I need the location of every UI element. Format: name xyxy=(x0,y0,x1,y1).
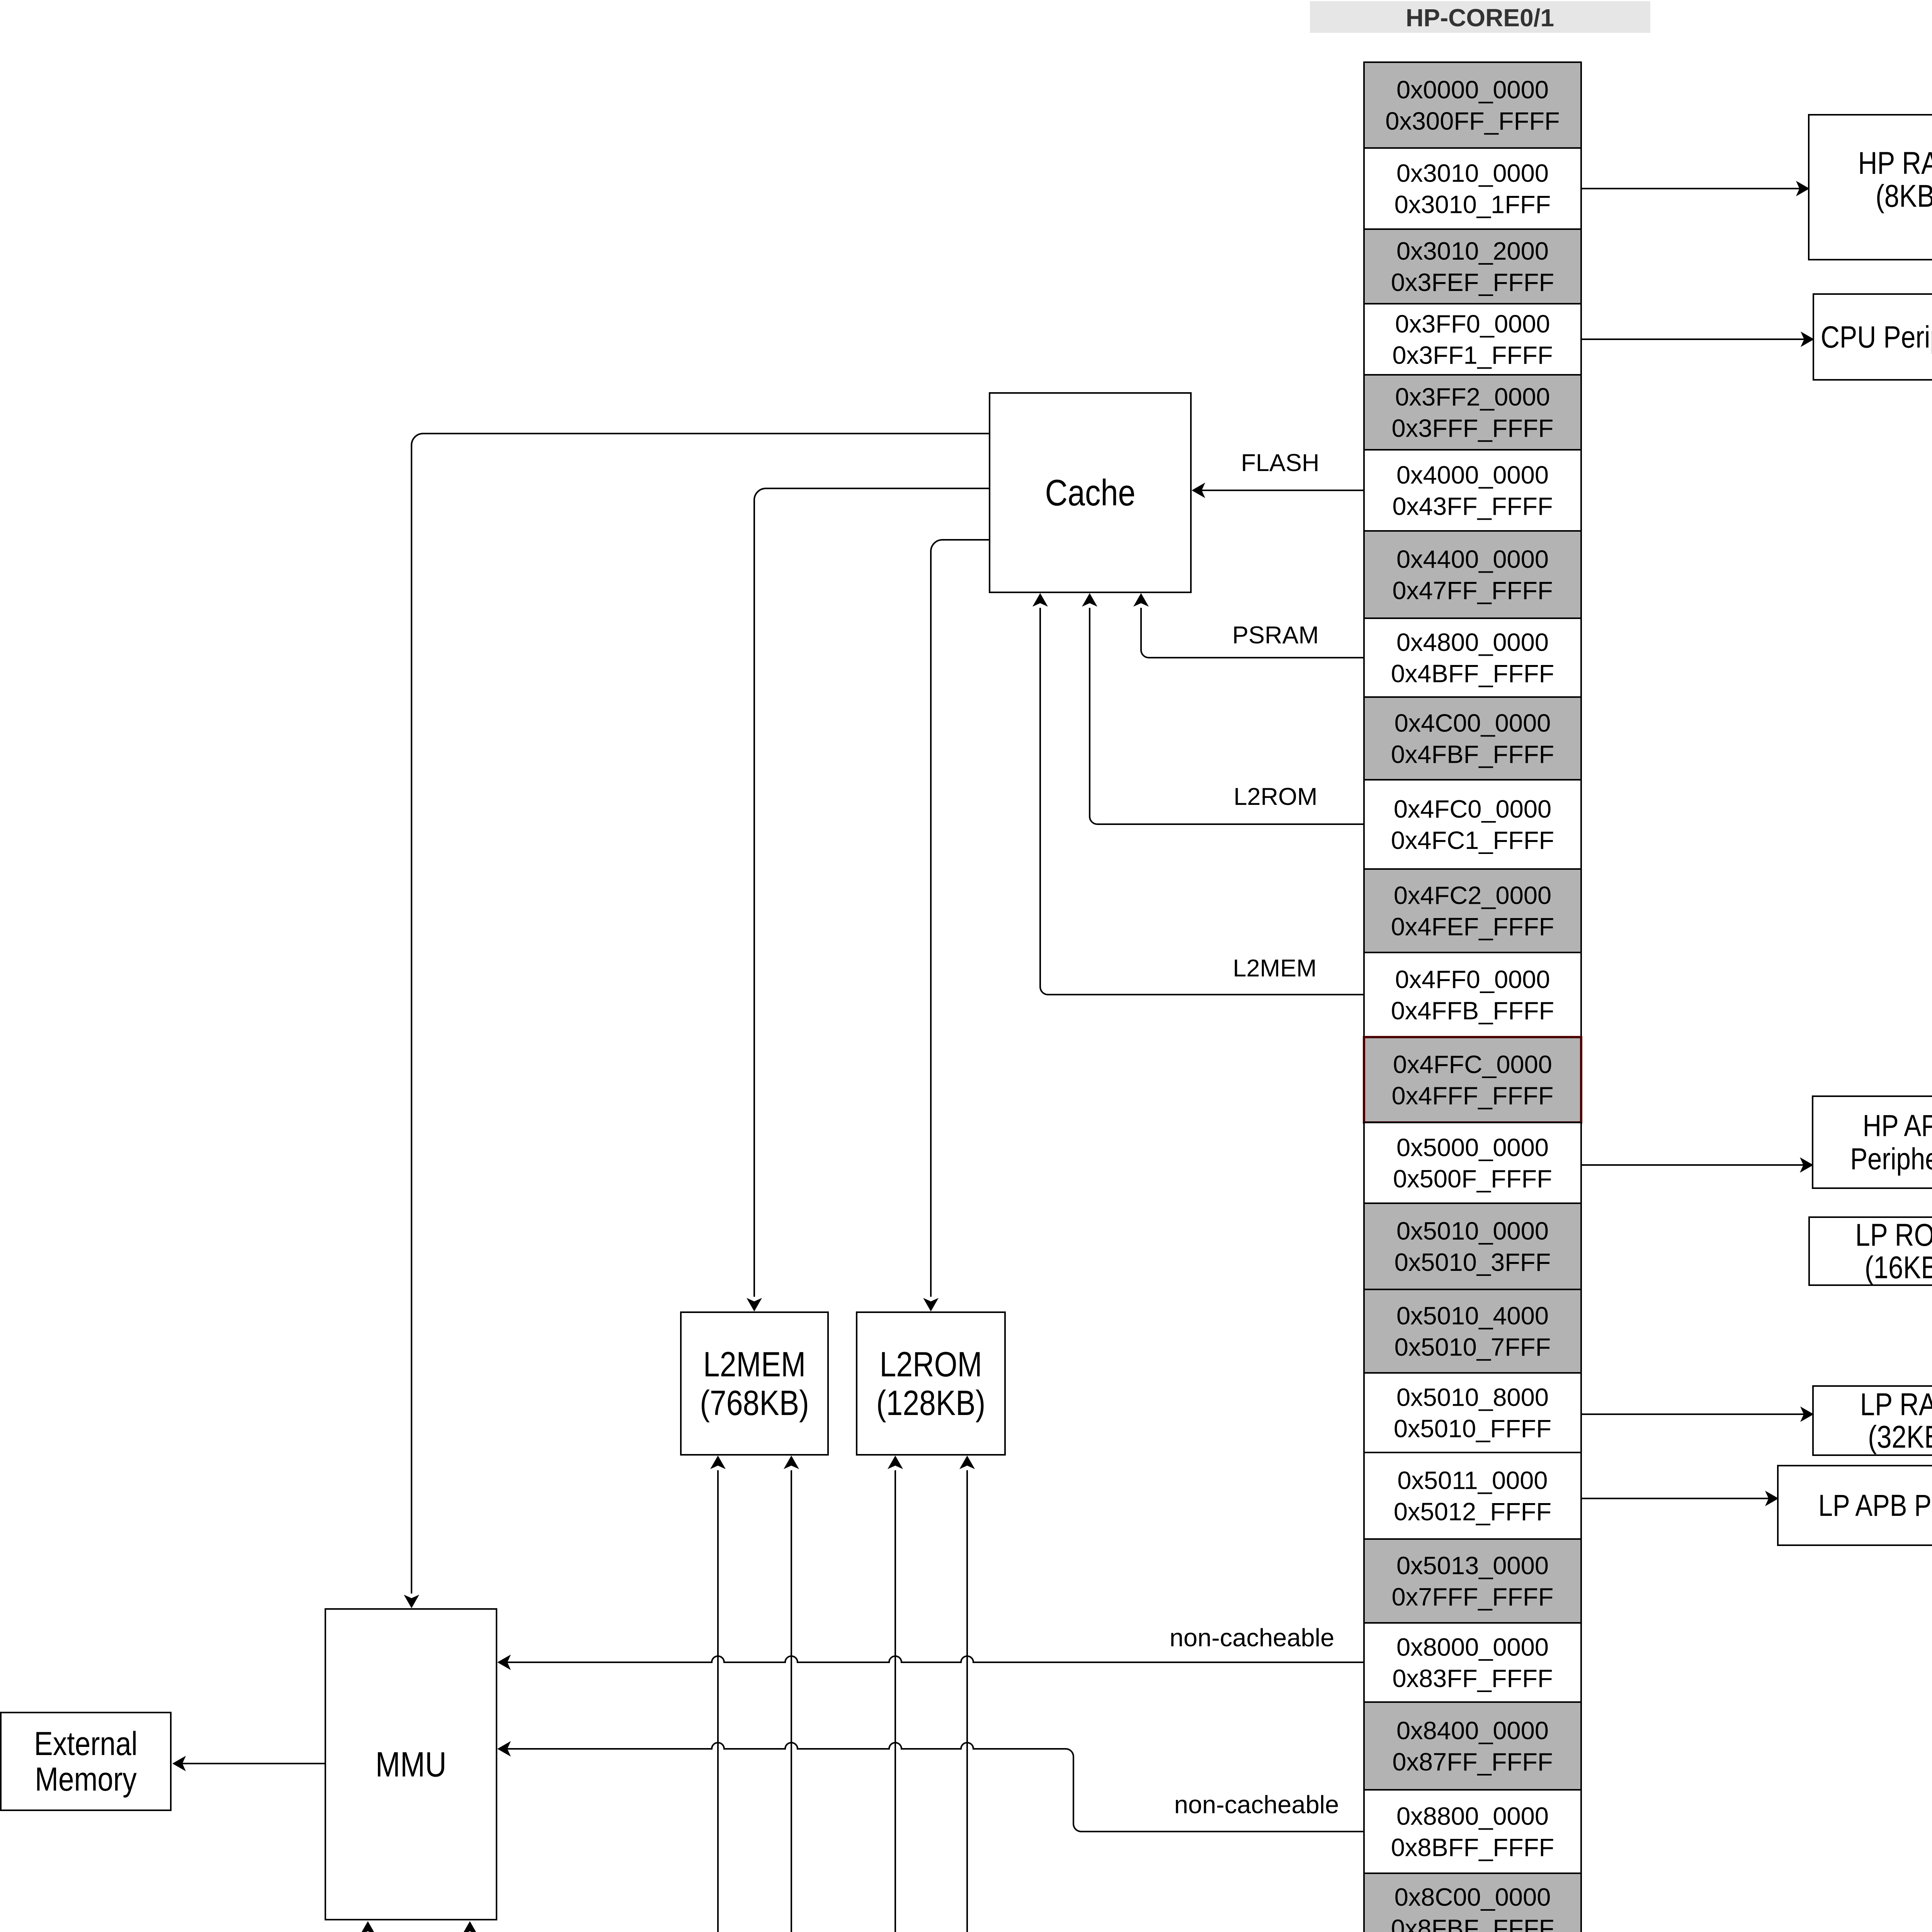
svg-text:FLASH: FLASH xyxy=(1241,449,1319,476)
wire non-cacheable 0x8000_0000 row to MMU xyxy=(500,1656,1363,1662)
box LP ROM (16KB) xyxy=(1809,1217,1932,1285)
svg-text:HP-CORE0/1: HP-CORE0/1 xyxy=(1406,4,1554,32)
wire ULP 0x4800_0000 row to MMU bottom xyxy=(368,658,1932,1932)
svg-text:0x3FF0_0000: 0x3FF0_0000 xyxy=(1395,310,1550,338)
svg-text:0x3010_0000: 0x3010_0000 xyxy=(1396,159,1549,187)
svg-text:0x5000_0000: 0x5000_0000 xyxy=(1396,1133,1549,1162)
svg-text:PSRAM: PSRAM xyxy=(1232,622,1319,649)
svg-text:(768KB): (768KB) xyxy=(700,1383,809,1422)
HP-CORE memory column row 0x5013_0000 xyxy=(1364,1539,1581,1623)
wire ULP 0x4FF0_0000 row to L2MEM bottom xyxy=(718,995,1932,1932)
svg-text:Memory: Memory xyxy=(35,1760,137,1798)
svg-text:HP APB: HP APB xyxy=(1863,1109,1932,1143)
svg-text:0x8000_0000: 0x8000_0000 xyxy=(1396,1633,1549,1661)
HP-CORE memory column row 0x4400_0000 xyxy=(1364,531,1581,618)
svg-text:0x4C00_0000: 0x4C00_0000 xyxy=(1395,709,1551,737)
svg-text:(32KB): (32KB) xyxy=(1868,1419,1932,1454)
box External Memory xyxy=(1,1713,171,1810)
svg-text:0x87FF_FFFF: 0x87FF_FFFF xyxy=(1392,1748,1553,1776)
svg-text:0x5010_7FFF: 0x5010_7FFF xyxy=(1395,1333,1551,1361)
svg-text:0x4FEF_FFFF: 0x4FEF_FFFF xyxy=(1391,913,1554,941)
svg-text:0x5010_0000: 0x5010_0000 xyxy=(1396,1217,1549,1245)
HP-CORE memory column row 0x3010_0000 xyxy=(1364,148,1581,229)
box CPU Peripheral xyxy=(1813,294,1932,380)
HP-CORE memory column row 0x3FF0_0000 xyxy=(1364,304,1581,375)
svg-text:MMU: MMU xyxy=(376,1745,447,1784)
svg-text:0x4FBF_FFFF: 0x4FBF_FFFF xyxy=(1391,740,1554,769)
wire Cache to MMU top xyxy=(412,434,990,1594)
wire HP-CORE 0x3010_0000 row to HP RAM xyxy=(1582,188,1806,189)
svg-text:L2MEM: L2MEM xyxy=(703,1345,806,1384)
svg-text:(128KB): (128KB) xyxy=(876,1383,985,1422)
svg-text:0x43FF_FFFF: 0x43FF_FFFF xyxy=(1392,492,1553,520)
svg-text:0x4FC0_0000: 0x4FC0_0000 xyxy=(1394,795,1551,823)
svg-text:0x5013_0000: 0x5013_0000 xyxy=(1396,1551,1549,1580)
svg-text:0x3FFF_FFFF: 0x3FFF_FFFF xyxy=(1392,414,1554,442)
HP-CORE memory column row 0x8C00_0000 xyxy=(1364,1873,1581,1932)
HP-CORE memory column row 0x4000_0000 xyxy=(1364,450,1581,531)
svg-text:0x83FF_FFFF: 0x83FF_FFFF xyxy=(1392,1664,1553,1692)
HP-CORE memory column row 0x8800_0000 xyxy=(1364,1790,1581,1873)
svg-text:0x7FFF_FFFF: 0x7FFF_FFFF xyxy=(1392,1583,1554,1611)
svg-text:(8KB): (8KB) xyxy=(1876,179,1932,214)
wire HP-CORE 0x5011_0000 row to LP APB Peripheral xyxy=(1582,1498,1775,1499)
svg-text:Peripheral: Peripheral xyxy=(1850,1142,1932,1176)
svg-text:0x300FF_FFFF: 0x300FF_FFFF xyxy=(1385,107,1560,135)
svg-text:0x5012_FFFF: 0x5012_FFFF xyxy=(1394,1498,1551,1526)
box L2ROM (128KB) xyxy=(857,1312,1005,1455)
wire L2MEM row to Cache bottom xyxy=(1040,608,1363,995)
svg-text:0x8800_0000: 0x8800_0000 xyxy=(1396,1802,1549,1830)
svg-text:non-cacheable: non-cacheable xyxy=(1170,1624,1334,1652)
svg-text:0x3FF1_FFFF: 0x3FF1_FFFF xyxy=(1392,341,1553,369)
svg-text:0x8FBF_FFFF: 0x8FBF_FFFF xyxy=(1391,1914,1554,1932)
svg-text:0x4BFF_FFFF: 0x4BFF_FFFF xyxy=(1391,660,1554,688)
HP-CORE memory column row 0x4800_0000 xyxy=(1364,618,1581,697)
svg-text:0x4FC2_0000: 0x4FC2_0000 xyxy=(1394,881,1551,910)
HP-CORE memory column row 0x8400_0000 xyxy=(1364,1702,1581,1790)
wire non-cacheable 0x8800_0000 row to MMU xyxy=(500,1743,1363,1832)
svg-text:0x4FF0_0000: 0x4FF0_0000 xyxy=(1395,965,1550,993)
HP-CORE memory column row 0x0000_0000 xyxy=(1364,62,1581,148)
svg-text:Cache: Cache xyxy=(1045,472,1135,514)
HP-CORE memory column row 0x4FC0_0000 xyxy=(1364,780,1581,869)
wire Cache to L2MEM top xyxy=(754,488,990,1297)
svg-text:0x3010_1FFF: 0x3010_1FFF xyxy=(1395,190,1551,219)
wire PSRAM row to Cache bottom xyxy=(1141,608,1363,658)
svg-text:(16KB): (16KB) xyxy=(1865,1250,1932,1285)
svg-text:non-cacheable: non-cacheable xyxy=(1174,1791,1339,1819)
wire non-cacheable 0x8FC0_0000 row to L2ROM bottom xyxy=(967,1470,1363,1932)
svg-text:LP APB Peripheral: LP APB Peripheral xyxy=(1818,1488,1932,1522)
HP-CORE memory column row 0x4FC2_0000 xyxy=(1364,869,1581,952)
svg-text:L2MEM: L2MEM xyxy=(1233,955,1316,982)
HP-CORE memory column row 0x5010_8000 xyxy=(1364,1373,1581,1452)
wire ULP 0x4000_0000 row to MMU bottom xyxy=(470,490,1932,1932)
svg-text:0x4400_0000: 0x4400_0000 xyxy=(1396,545,1549,573)
svg-text:0x8C00_0000: 0x8C00_0000 xyxy=(1395,1883,1551,1911)
svg-text:0x3FF2_0000: 0x3FF2_0000 xyxy=(1395,383,1550,411)
wire L2ROM row to Cache bottom xyxy=(1090,608,1363,824)
svg-text:0x5010_3FFF: 0x5010_3FFF xyxy=(1395,1248,1551,1276)
svg-text:0x5010_8000: 0x5010_8000 xyxy=(1396,1383,1549,1412)
box MMU xyxy=(325,1609,497,1920)
svg-text:LP ROM: LP ROM xyxy=(1855,1218,1932,1253)
HP-CORE memory column row 0x5000_0000 xyxy=(1364,1122,1581,1203)
wire HP-CORE 0x5010_8000 row to LP RAM xyxy=(1582,1413,1810,1415)
wire HP-CORE 0x5000_0000 row to HP APB Peripheral xyxy=(1582,1164,1810,1166)
svg-text:0x5011_0000: 0x5011_0000 xyxy=(1397,1466,1548,1495)
svg-text:0x4FFF_FFFF: 0x4FFF_FFFF xyxy=(1392,1082,1554,1110)
svg-text:LP RAM: LP RAM xyxy=(1860,1387,1932,1422)
box Cache xyxy=(990,393,1191,592)
wire non-cacheable 0x8FF0_0000 row to L2MEM bottom xyxy=(791,1470,1363,1932)
svg-text:0x3010_2000: 0x3010_2000 xyxy=(1396,237,1549,265)
svg-text:0x5010_FFFF: 0x5010_FFFF xyxy=(1394,1415,1551,1443)
svg-text:0x4800_0000: 0x4800_0000 xyxy=(1396,628,1549,656)
header HP-CORE0/1 xyxy=(1310,1,1650,33)
HP-CORE memory column row 0x5010_4000 xyxy=(1364,1289,1581,1373)
svg-text:0x500F_FFFF: 0x500F_FFFF xyxy=(1393,1165,1552,1193)
svg-text:0x3FEF_FFFF: 0x3FEF_FFFF xyxy=(1391,268,1554,296)
svg-text:0x4FFB_FFFF: 0x4FFB_FFFF xyxy=(1391,997,1554,1025)
svg-text:L2ROM: L2ROM xyxy=(879,1345,982,1384)
wire FLASH row to Cache xyxy=(1194,490,1363,491)
svg-text:HP RAM: HP RAM xyxy=(1858,146,1932,181)
HP-CORE memory column row 0x4C00_0000 xyxy=(1364,697,1581,780)
box HP RAM (8KB) xyxy=(1809,115,1932,260)
wire Cache to L2ROM top xyxy=(931,540,990,1297)
svg-text:0x4000_0000: 0x4000_0000 xyxy=(1396,461,1549,489)
HP-CORE memory column row 0x5010_0000 xyxy=(1364,1203,1581,1289)
HP-CORE memory column row 0x8000_0000 xyxy=(1364,1623,1581,1702)
HP-CORE memory column row 0x4FF0_0000 xyxy=(1364,952,1581,1037)
svg-text:0x0000_0000: 0x0000_0000 xyxy=(1396,76,1549,104)
box LP APB Peripheral xyxy=(1778,1466,1932,1545)
HP-CORE memory column row 0x5011_0000 xyxy=(1364,1452,1581,1539)
svg-text:L2ROM: L2ROM xyxy=(1233,783,1317,810)
box LP RAM (32KB) xyxy=(1813,1386,1932,1455)
wire ULP 0x4FC0_0000 row to L2ROM bottom xyxy=(895,824,1932,1932)
box HP APB Peripheral xyxy=(1813,1096,1932,1188)
svg-text:0x8BFF_FFFF: 0x8BFF_FFFF xyxy=(1391,1833,1554,1862)
wire HP-CORE 0x3FF0_0000 row to CPU Peripheral xyxy=(1582,338,1810,340)
svg-text:0x4FC1_FFFF: 0x4FC1_FFFF xyxy=(1391,826,1554,854)
wire MMU to External Memory xyxy=(175,1763,325,1764)
svg-text:External: External xyxy=(34,1725,138,1762)
svg-text:0x4FFC_0000: 0x4FFC_0000 xyxy=(1393,1050,1552,1078)
HP-CORE memory column row 0x4FFC_0000 xyxy=(1364,1037,1581,1122)
svg-text:0x47FF_FFFF: 0x47FF_FFFF xyxy=(1392,577,1553,605)
HP-CORE memory column row 0x3010_2000 xyxy=(1364,229,1581,304)
svg-text:CPU Peripheral: CPU Peripheral xyxy=(1821,320,1932,354)
box L2MEM (768KB) xyxy=(681,1312,828,1455)
svg-text:0x5010_4000: 0x5010_4000 xyxy=(1396,1302,1549,1330)
HP-CORE memory column row 0x3FF2_0000 xyxy=(1364,375,1581,450)
svg-text:0x8400_0000: 0x8400_0000 xyxy=(1396,1716,1549,1745)
